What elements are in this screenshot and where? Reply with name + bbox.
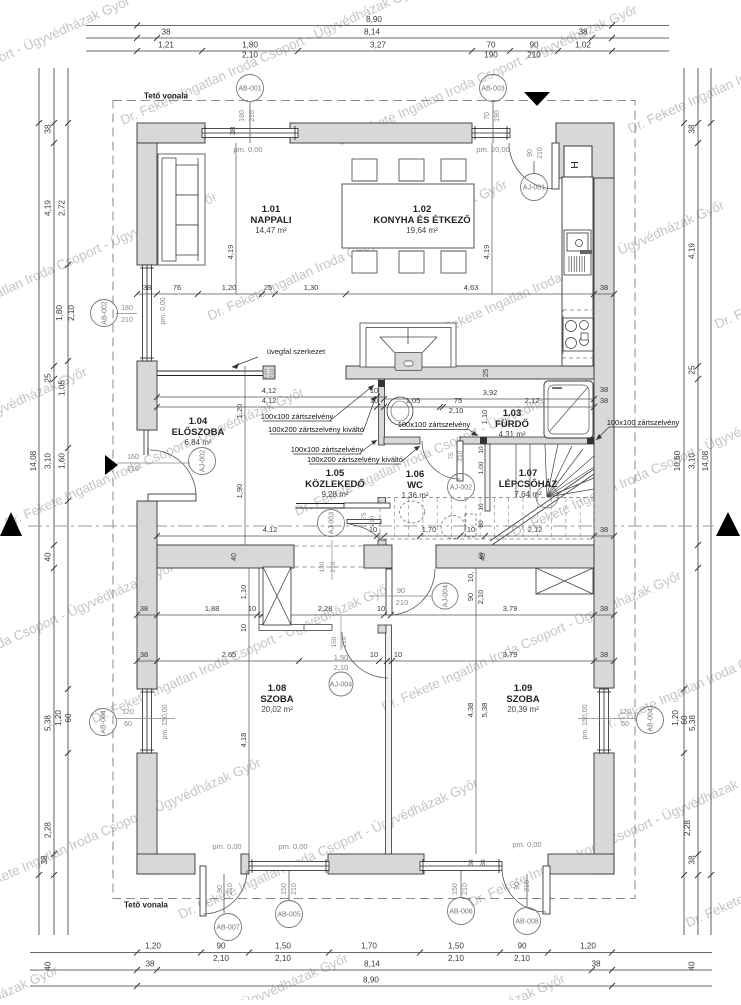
svg-text:AJ-004: AJ-004 <box>443 585 450 607</box>
left outer wall pillar middle <box>137 361 157 430</box>
svg-text:210: 210 <box>341 636 348 647</box>
svg-text:190: 190 <box>484 51 498 60</box>
svg-text:3,10: 3,10 <box>44 453 53 469</box>
svg-text:SZOBA: SZOBA <box>506 694 539 705</box>
right outer wall upper <box>594 178 614 688</box>
svg-text:9,28 m²: 9,28 m² <box>321 490 348 499</box>
svg-text:10: 10 <box>478 503 485 511</box>
svg-text:2,10: 2,10 <box>449 406 464 415</box>
svg-text:2,28: 2,28 <box>683 820 692 836</box>
svg-text:pm. 150,00: pm. 150,00 <box>162 704 169 739</box>
svg-text:150: 150 <box>452 883 459 895</box>
dimension row bottom openings <box>30 952 712 954</box>
window AB-003 top wall <box>472 129 510 138</box>
svg-text:1.08: 1.08 <box>268 683 287 694</box>
svg-text:pm. 0,00: pm. 0,00 <box>160 297 167 324</box>
svg-text:38: 38 <box>44 124 53 134</box>
vertical dim line kitchen <box>491 143 493 294</box>
outer wall top middle segment <box>290 123 472 143</box>
svg-text:40: 40 <box>44 552 53 562</box>
svg-text:1,20: 1,20 <box>222 283 237 292</box>
svg-text:AB-008: AB-008 <box>515 919 538 926</box>
marker AB-008 <box>526 874 528 908</box>
svg-text:120: 120 <box>122 709 134 716</box>
wardrobe X bedroom 1.08 <box>263 567 291 625</box>
interior wall band above bedrooms right <box>436 545 594 568</box>
svg-text:130: 130 <box>319 561 326 572</box>
svg-text:1.02: 1.02 <box>413 204 432 215</box>
svg-text:pm. 0,00: pm. 0,00 <box>233 145 262 154</box>
outer wall top-right corner block <box>556 123 614 178</box>
svg-text:4,12: 4,12 <box>262 386 277 395</box>
svg-text:LÉPCSŐHÁZ: LÉPCSŐHÁZ <box>499 478 558 490</box>
interior wall kitchen-corridor 25cm <box>346 366 594 379</box>
dimension row top 1,21 1,80 3,27 70 90 1,02 <box>86 50 669 52</box>
svg-text:2,10: 2,10 <box>67 305 76 321</box>
svg-text:1,20: 1,20 <box>580 942 596 951</box>
interior wall band above bedrooms middle <box>364 545 392 568</box>
svg-text:AB-006: AB-006 <box>449 909 472 916</box>
left outer wall bottom <box>137 753 157 874</box>
svg-text:8,14: 8,14 <box>364 960 380 969</box>
svg-text:4,38: 4,38 <box>466 703 475 718</box>
svg-text:38: 38 <box>600 396 608 405</box>
staircase circle hub <box>536 486 558 508</box>
svg-text:3,79: 3,79 <box>503 604 518 613</box>
dimension row top overall 8,90 <box>86 25 669 27</box>
svg-text:Tető vonala: Tető vonala <box>144 92 188 101</box>
door AB-007 bottom left with arc <box>200 866 206 916</box>
svg-text:38: 38 <box>688 124 697 134</box>
svg-text:1,50: 1,50 <box>334 653 349 662</box>
svg-text:20,02 m²: 20,02 m² <box>261 705 293 714</box>
window AB-004 right wall <box>600 689 609 753</box>
svg-text:38: 38 <box>591 960 601 969</box>
svg-text:H: H <box>569 161 581 169</box>
svg-text:10,: 10, <box>466 572 475 582</box>
svg-text:1,02: 1,02 <box>575 41 591 50</box>
svg-text:3,92: 3,92 <box>483 388 498 397</box>
svg-text:1,05: 1,05 <box>58 380 67 396</box>
door AJ-004 bedroom 1.09 with arc <box>386 569 392 615</box>
svg-text:100x100 zártszelvény: 100x100 zártszelvény <box>607 418 680 427</box>
gallery dashed band <box>380 498 594 540</box>
svg-text:70: 70 <box>484 112 491 120</box>
bottom wall left segment <box>137 854 195 874</box>
svg-text:38: 38 <box>228 127 237 135</box>
elo szoba vertical dims <box>244 366 246 545</box>
svg-text:180: 180 <box>239 110 246 122</box>
svg-text:2,10: 2,10 <box>514 954 530 963</box>
svg-text:4,12: 4,12 <box>263 525 278 534</box>
svg-text:1,50: 1,50 <box>448 942 464 951</box>
svg-text:38: 38 <box>600 604 608 613</box>
svg-text:3,10: 3,10 <box>688 453 697 469</box>
svg-text:Tető vonala: Tető vonala <box>124 901 168 910</box>
right dimension column lines <box>683 68 685 935</box>
vertical dim line bedroom 1.08 <box>248 568 250 854</box>
marker AJ-002 wc <box>448 474 475 501</box>
svg-text:5,38: 5,38 <box>688 715 697 731</box>
svg-text:2,28: 2,28 <box>318 604 333 613</box>
svg-text:10: 10 <box>239 624 248 632</box>
svg-text:90: 90 <box>216 942 226 951</box>
svg-text:210: 210 <box>269 368 276 379</box>
svg-text:WC: WC <box>407 480 423 491</box>
marker AB-001 <box>249 101 251 143</box>
window AB-001 top wall <box>202 129 298 138</box>
svg-text:210: 210 <box>330 561 337 572</box>
marker AJ-004 bedroom 1.08 <box>329 672 353 696</box>
marker AB-007 <box>223 874 225 913</box>
svg-text:75: 75 <box>454 396 462 405</box>
svg-text:150: 150 <box>331 636 338 647</box>
svg-text:90: 90 <box>397 586 405 595</box>
svg-text:38: 38 <box>600 525 608 534</box>
staircase treads <box>515 444 517 497</box>
svg-text:38: 38 <box>161 28 171 37</box>
svg-text:2,10: 2,10 <box>476 590 485 605</box>
svg-text:8,90: 8,90 <box>363 976 379 985</box>
svg-text:6,84 m²: 6,84 m² <box>184 438 211 447</box>
dimension row y615 bedrooms <box>137 614 614 616</box>
wardrobe X bedroom 1.09 <box>536 568 593 594</box>
svg-text:pm. 0,00: pm. 0,00 <box>512 840 541 849</box>
svg-text:1.03: 1.03 <box>503 408 522 419</box>
interior wall bathroom bottom left segment <box>384 437 420 444</box>
dimension row y407 <box>157 406 594 408</box>
svg-text:AJ-002: AJ-002 <box>450 485 472 492</box>
svg-text:1,70: 1,70 <box>361 942 377 951</box>
svg-text:130: 130 <box>262 368 269 379</box>
glass wall column <box>263 366 275 379</box>
window AB-005 bottom wall <box>249 862 329 871</box>
svg-text:90: 90 <box>517 942 527 951</box>
right outer wall lower <box>594 753 614 874</box>
svg-text:FÜRDŐ: FÜRDŐ <box>495 418 529 430</box>
svg-text:40: 40 <box>688 961 697 971</box>
svg-text:1,70: 1,70 <box>422 525 437 534</box>
svg-text:1.09: 1.09 <box>514 683 533 694</box>
dimension row y536 <box>157 535 614 537</box>
steel column markers <box>378 380 385 387</box>
svg-text:190: 190 <box>494 110 501 122</box>
svg-text:14,47 m²: 14,47 m² <box>255 226 287 235</box>
svg-text:2,10: 2,10 <box>334 663 349 672</box>
marker AB-002 <box>91 300 118 327</box>
staircase stringer diagonal <box>490 469 594 541</box>
svg-text:210: 210 <box>127 466 139 473</box>
vertical dim line living room <box>235 143 237 294</box>
svg-text:4,12: 4,12 <box>262 396 277 405</box>
svg-text:20,39 m²: 20,39 m² <box>507 705 539 714</box>
svg-text:AJ-003: AJ-003 <box>329 512 336 534</box>
svg-text:38: 38 <box>145 960 155 969</box>
vertical dim line bedroom 1.09 <box>475 568 477 854</box>
svg-text:40: 40 <box>44 961 53 971</box>
svg-text:210: 210 <box>462 883 469 895</box>
svg-text:100x100 zártszelvény: 100x100 zártszelvény <box>261 412 334 421</box>
svg-text:100x100 zártszelvény: 100x100 zártszelvény <box>291 445 364 454</box>
svg-text:AB-001: AB-001 <box>238 86 261 93</box>
north triangle top <box>524 92 550 106</box>
outer wall top-left segment <box>137 123 205 143</box>
svg-text:pm. 20,00: pm. 20,00 <box>476 145 509 154</box>
svg-text:1,80: 1,80 <box>55 305 64 321</box>
svg-text:1.04: 1.04 <box>189 416 208 427</box>
svg-text:1,30: 1,30 <box>304 283 319 292</box>
svg-text:38: 38 <box>578 28 588 37</box>
interior wall bathroom bottom right segment <box>460 437 594 444</box>
svg-text:38: 38 <box>688 855 697 865</box>
svg-text:1.07: 1.07 <box>519 468 538 479</box>
svg-text:1,20: 1,20 <box>235 404 244 419</box>
svg-text:10,60: 10,60 <box>673 450 682 471</box>
svg-text:210: 210 <box>369 515 376 526</box>
svg-text:38: 38 <box>140 650 148 659</box>
marker AJ-004 bedroom 1.09 <box>432 583 458 609</box>
window AB-006 bottom wall <box>420 862 502 871</box>
svg-text:AB-002: AB-002 <box>102 301 109 324</box>
window AB-002 left wall <box>143 265 152 361</box>
entrance sidelight glazing <box>143 430 145 455</box>
dimension row bottom 8,90 <box>30 985 712 987</box>
dining table <box>342 184 474 248</box>
left outer wall upper <box>137 143 157 265</box>
bathtub <box>544 381 593 438</box>
stairwell left wall <box>485 444 490 511</box>
svg-text:8,14: 8,14 <box>364 28 380 37</box>
svg-text:25: 25 <box>44 373 53 383</box>
svg-text:AB-004: AB-004 <box>648 708 655 731</box>
svg-text:100x200 zártszelvény kiváltó: 100x200 zártszelvény kiváltó <box>268 425 364 434</box>
svg-text:AJ-001: AJ-001 <box>523 185 545 192</box>
svg-text:1,05: 1,05 <box>406 396 421 405</box>
svg-text:1,10: 1,10 <box>239 585 248 600</box>
svg-text:4,31 m²: 4,31 m² <box>498 430 525 439</box>
svg-text:120: 120 <box>619 709 631 716</box>
marker AB-004 right <box>637 707 664 734</box>
svg-text:2,72: 2,72 <box>58 200 67 216</box>
svg-text:2,28: 2,28 <box>44 822 53 838</box>
svg-text:2,12: 2,12 <box>525 396 540 405</box>
svg-text:AB-007: AB-007 <box>216 925 239 932</box>
dimension row bottom 38 8,14 38 <box>30 969 712 971</box>
door AJ-003 leaf <box>347 520 381 524</box>
svg-text:1,88: 1,88 <box>205 604 220 613</box>
left dimension column lines <box>38 68 40 935</box>
svg-text:4,19: 4,19 <box>482 245 491 260</box>
svg-text:100x100 zártszelvény: 100x100 zártszelvény <box>398 420 471 429</box>
svg-text:90: 90 <box>529 41 539 50</box>
dimension row y397 <box>157 396 384 398</box>
fridge niche H <box>564 146 592 177</box>
svg-text:210: 210 <box>227 883 234 895</box>
svg-text:1,10: 1,10 <box>480 410 489 425</box>
svg-text:80: 80 <box>478 520 485 528</box>
svg-text:üvegfal szerkezet: üvegfal szerkezet <box>267 347 326 356</box>
svg-text:2,10: 2,10 <box>242 51 258 60</box>
entrance door AJ-002 left wall with arc <box>148 494 196 501</box>
kitchen sink <box>564 230 591 275</box>
dimension row y661 bedrooms <box>137 660 614 662</box>
dining chairs bottom row <box>352 251 377 273</box>
svg-text:14,08: 14,08 <box>701 450 710 471</box>
kitchen stove <box>563 310 593 358</box>
dashed washbasin upper floor <box>400 501 425 523</box>
svg-text:210: 210 <box>527 51 541 60</box>
svg-text:25: 25 <box>264 283 272 292</box>
door AB-008 bottom right with arc <box>543 866 550 914</box>
svg-text:SZOBA: SZOBA <box>260 694 293 705</box>
marker AB-003 <box>492 102 494 143</box>
svg-text:10: 10 <box>467 525 475 534</box>
svg-text:3,79: 3,79 <box>503 650 518 659</box>
svg-text:60: 60 <box>64 713 73 723</box>
interior wall band above bedrooms left <box>157 545 294 568</box>
svg-text:100x200 zártszelvény kiváltó: 100x200 zártszelvény kiváltó <box>307 455 403 464</box>
bedroom separating wall vertical <box>386 625 392 854</box>
svg-text:75: 75 <box>448 452 455 460</box>
svg-text:210: 210 <box>291 883 298 895</box>
svg-text:38: 38 <box>600 385 608 394</box>
svg-text:210: 210 <box>537 147 544 159</box>
svg-text:1,50: 1,50 <box>275 942 291 951</box>
svg-text:1,20: 1,20 <box>145 942 161 951</box>
svg-text:38: 38 <box>480 859 487 867</box>
dimension row top 38 8,14 38 <box>86 37 669 39</box>
svg-text:1,60: 1,60 <box>58 453 67 469</box>
svg-text:4,63: 4,63 <box>464 283 479 292</box>
svg-text:AJ-004: AJ-004 <box>330 682 352 689</box>
svg-text:76: 76 <box>173 283 181 292</box>
svg-text:90: 90 <box>466 593 475 601</box>
svg-text:1.01: 1.01 <box>262 204 281 215</box>
svg-text:75: 75 <box>361 512 368 520</box>
fireplace <box>360 323 456 367</box>
svg-text:5,38: 5,38 <box>44 715 53 731</box>
svg-text:38: 38 <box>143 283 151 292</box>
section arrow right <box>716 512 740 536</box>
svg-text:180: 180 <box>121 305 133 312</box>
svg-text:60: 60 <box>621 721 629 728</box>
svg-text:210: 210 <box>524 880 531 892</box>
svg-text:90: 90 <box>527 149 534 157</box>
wall band opening dashed continuation <box>294 545 364 547</box>
svg-text:ELŐSZOBA: ELŐSZOBA <box>172 426 225 438</box>
washbasin bathroom <box>387 397 413 425</box>
svg-text:5,38: 5,38 <box>480 703 489 718</box>
svg-text:10: 10 <box>370 650 378 659</box>
svg-text:8,90: 8,90 <box>366 15 382 24</box>
svg-text:10: 10 <box>478 446 485 454</box>
dashed toilet upper floor <box>441 516 465 539</box>
svg-text:25: 25 <box>688 365 697 375</box>
svg-text:2,12: 2,12 <box>528 525 543 534</box>
svg-text:70: 70 <box>486 41 496 50</box>
marker AJ-003 <box>318 510 345 537</box>
svg-text:38: 38 <box>40 855 49 865</box>
svg-text:AB-003: AB-003 <box>481 86 504 93</box>
svg-text:KONYHA ÉS ÉTKEZŐ: KONYHA ÉS ÉTKEZŐ <box>373 214 470 226</box>
svg-text:10: 10 <box>377 604 385 613</box>
svg-text:25: 25 <box>481 369 490 377</box>
entrance arrow triangle <box>105 455 118 475</box>
corridor gallery wall segment <box>296 503 344 505</box>
svg-text:19,64 m²: 19,64 m² <box>406 226 438 235</box>
svg-text:1.06: 1.06 <box>406 469 425 480</box>
svg-text:2,10: 2,10 <box>275 954 291 963</box>
svg-text:38: 38 <box>600 283 608 292</box>
marker AJ-002 entrance <box>189 448 216 475</box>
left outer wall lower <box>137 501 157 689</box>
svg-text:38: 38 <box>140 604 148 613</box>
svg-text:4,19: 4,19 <box>688 243 697 259</box>
svg-text:160: 160 <box>127 454 139 461</box>
svg-text:1.05: 1.05 <box>326 468 345 479</box>
marker AJ-001 <box>533 161 535 173</box>
svg-text:3,27: 3,27 <box>370 41 386 50</box>
interior wall WC left vertical <box>379 379 385 445</box>
svg-text:1,21: 1,21 <box>158 41 174 50</box>
svg-text:1,80: 1,80 <box>242 41 258 50</box>
svg-text:NAPPALI: NAPPALI <box>251 215 292 226</box>
svg-text:60: 60 <box>124 721 132 728</box>
svg-text:2,10: 2,10 <box>448 954 464 963</box>
bottom wall right corner segment <box>548 854 614 874</box>
svg-text:4,18: 4,18 <box>239 733 248 748</box>
bottom wall middle segment <box>328 854 424 874</box>
svg-text:1,90: 1,90 <box>235 484 244 499</box>
svg-text:7,64 m²: 7,64 m² <box>514 490 541 499</box>
marker AB-006 <box>460 871 462 897</box>
svg-text:150: 150 <box>281 883 288 895</box>
roof line dashed rectangle <box>113 101 635 899</box>
section line A-A dash-dot <box>28 525 714 527</box>
svg-text:14,08: 14,08 <box>29 450 38 471</box>
svg-text:40: 40 <box>231 553 238 561</box>
svg-text:pm. 0,00: pm. 0,00 <box>212 842 241 851</box>
marker AB-004 left <box>90 709 117 736</box>
svg-text:1,20: 1,20 <box>671 710 680 726</box>
window AB-004 left wall <box>143 689 152 753</box>
svg-text:1,00: 1,00 <box>478 461 485 474</box>
svg-text:90: 90 <box>217 885 224 893</box>
door AJ-003 arc <box>349 524 380 540</box>
svg-text:pm. 0,00: pm. 0,00 <box>278 842 307 851</box>
door AJ-001 kitchen top with arc <box>552 143 559 189</box>
svg-text:2,65: 2,65 <box>222 650 237 659</box>
svg-text:1,20: 1,20 <box>54 710 63 726</box>
svg-text:210: 210 <box>121 317 133 324</box>
svg-text:2,10: 2,10 <box>213 954 229 963</box>
svg-text:38: 38 <box>600 650 608 659</box>
svg-text:40: 40 <box>480 553 487 561</box>
door WC AJ-002 with arc <box>457 441 463 481</box>
svg-text:AB-005: AB-005 <box>277 912 300 919</box>
marker AB-005 <box>288 871 290 900</box>
svg-text:4,19: 4,19 <box>44 200 53 216</box>
sill under wardrobe 1.08 <box>259 625 332 631</box>
svg-text:AJ-002: AJ-002 <box>200 450 207 472</box>
svg-text:pm. 150,00: pm. 150,00 <box>582 704 589 739</box>
svg-text:90: 90 <box>514 882 521 890</box>
door AJ-003 corridor wall segment <box>344 503 390 508</box>
svg-text:38: 38 <box>468 859 475 867</box>
svg-text:4,19: 4,19 <box>226 245 235 260</box>
sofa living room <box>158 154 205 265</box>
svg-text:10: 10 <box>394 650 402 659</box>
